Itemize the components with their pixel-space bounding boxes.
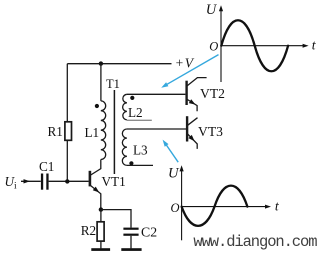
node L1 phasing dot (95, 104, 99, 108)
label L1 (85, 125, 100, 140)
label C2 (141, 225, 157, 240)
watermark www.diangon.com (193, 233, 317, 251)
wire Ui input to C1 (21, 180, 41, 182)
label R1 (48, 124, 63, 139)
wire C1 to base junction (49, 180, 89, 182)
resistor R2 body (97, 222, 104, 241)
svg-text:VT1: VT1 (102, 174, 126, 189)
label t upper graph (312, 37, 317, 52)
svg-text:VT3: VT3 (198, 124, 223, 139)
annotation arrow lower (cyan) (165, 144, 178, 163)
label t lower graph (275, 198, 280, 213)
svg-text:L3: L3 (133, 143, 148, 158)
node input arrowhead (24, 179, 31, 183)
graph lower U axis (182, 171, 266, 241)
label Ui (5, 174, 18, 192)
node junction dot base (65, 179, 69, 183)
svg-text:+V: +V (175, 56, 195, 71)
inductor L3 secondary winding (122, 129, 127, 165)
transistor VT3 (187, 116, 197, 149)
label VT3 (198, 124, 223, 139)
wire top rail from R1 corner to +V (67, 63, 171, 65)
svg-text:R2: R2 (81, 223, 96, 238)
ground below R2 (91, 248, 110, 251)
svg-text:U: U (168, 165, 180, 181)
svg-text:L2: L2 (128, 105, 143, 120)
wire L3 bottom stub (127, 164, 153, 166)
label O lower graph (171, 201, 180, 215)
wire R2 to ground (100, 241, 102, 248)
wire L2 bottom stub (127, 119, 152, 121)
label +V (175, 56, 195, 71)
svg-text:T1: T1 (106, 77, 120, 91)
node L2 phasing dot (130, 96, 134, 100)
svg-text:www.diangon.com: www.diangon.com (193, 233, 317, 251)
annotation arrow upper (cyan) (166, 55, 219, 86)
resistor R1 body (65, 122, 72, 141)
graph upper axis arrowheads (219, 5, 309, 48)
capacitor C2 plates (123, 228, 138, 236)
label L2 (128, 105, 143, 120)
node L3 phasing dot (129, 161, 133, 165)
svg-text:O: O (171, 201, 180, 215)
svg-text:C2: C2 (141, 225, 157, 240)
label VT2 (200, 86, 225, 101)
svg-text:L1: L1 (85, 125, 100, 140)
svg-text:t: t (275, 198, 280, 213)
annotation arrowhead upper (161, 82, 168, 88)
node emitter junction dot (99, 207, 103, 211)
label R2 (81, 223, 96, 238)
wire L3 top to VT3 base (127, 128, 186, 130)
label U upper graph (206, 2, 218, 18)
label U lower graph (168, 165, 180, 181)
wire L2 top to VT2 base (127, 93, 185, 95)
svg-text:VT2: VT2 (200, 86, 225, 101)
label C1 (39, 159, 54, 174)
label T1 (106, 77, 120, 91)
capacitor C1 plates (41, 174, 49, 190)
label O upper graph (209, 39, 218, 53)
transformer T1 core (113, 90, 115, 174)
transistor VT2 (187, 78, 207, 112)
annotation arrowhead lower (163, 140, 169, 147)
wire emitter node to R2 (100, 210, 102, 222)
graph lower sine wave (182, 186, 248, 226)
svg-text:t: t (312, 37, 317, 52)
inductor L2 secondary winding (123, 94, 127, 120)
svg-text:U: U (206, 2, 218, 18)
svg-text:O: O (209, 39, 218, 53)
graph lower axis arrowheads (180, 165, 272, 208)
wire L1 feed from top rail (100, 64, 102, 101)
transistor VT1 (90, 160, 101, 210)
label VT1 (102, 174, 126, 189)
node junction dot top rail / L1 (99, 61, 103, 65)
label L3 (133, 143, 148, 158)
graph upper sine wave (221, 20, 288, 71)
wire emitter node to C2 (101, 210, 131, 228)
ground below C2 (121, 248, 141, 251)
svg-text:C1: C1 (39, 159, 54, 174)
svg-text:R1: R1 (48, 124, 63, 139)
wire C2 to ground (130, 236, 132, 249)
inductor L1 primary winding (101, 101, 106, 160)
wire R1 branch vertical (66, 64, 68, 182)
svg-text:Ui: Ui (5, 174, 18, 192)
graph upper U axis (221, 11, 304, 83)
